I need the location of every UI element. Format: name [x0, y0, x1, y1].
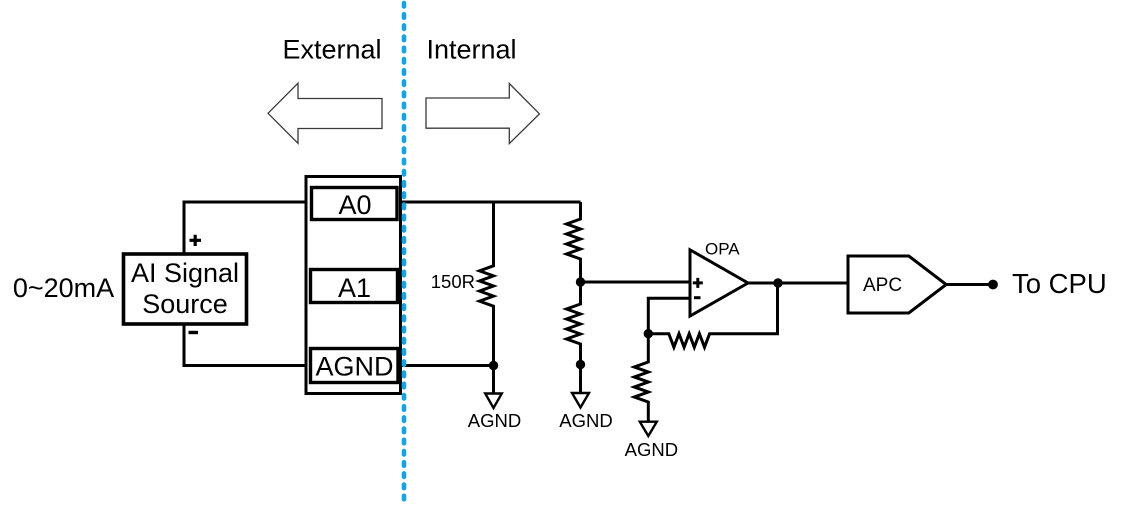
svg-text:AI Signal: AI Signal [131, 258, 239, 288]
wire APC to CPU node [946, 283, 993, 286]
svg-text:APC: APC [863, 275, 902, 296]
resistor divider top [567, 202, 581, 282]
APC block [848, 256, 946, 313]
resistor divider bottom [567, 282, 581, 365]
node feedback junction [644, 329, 653, 338]
arrow external (left) [268, 83, 382, 143]
resistor 150R [480, 202, 494, 366]
op-amp OPA [690, 240, 748, 317]
wire A0 to divider [397, 201, 581, 204]
wire divider bottom to ground 2 [579, 365, 582, 394]
svg-text:0~20mA: 0~20mA [13, 273, 114, 303]
svg-text:OPA: OPA [705, 240, 740, 259]
node To CPU [988, 280, 998, 290]
svg-text:To CPU: To CPU [1012, 268, 1107, 299]
ground AGND 3 [625, 422, 678, 460]
node divider mid [576, 277, 585, 286]
wire AGND terminal to node [397, 364, 494, 367]
terminal AGND [311, 349, 399, 383]
wire op-amp minus input [648, 298, 690, 334]
node divider bottom [576, 360, 585, 369]
resistor R3 to ground [634, 334, 648, 422]
wire node to ground 1 [492, 366, 495, 394]
polarity + [190, 235, 202, 246]
ground AGND 1 [468, 394, 521, 432]
svg-text:AGND: AGND [559, 410, 612, 431]
svg-text:Internal: Internal [426, 35, 516, 65]
wire source minus to AGND terminal [184, 324, 311, 366]
arrow internal (right) [426, 84, 540, 144]
svg-text:AGND: AGND [315, 352, 393, 382]
svg-text:Source: Source [142, 289, 228, 319]
connector block [306, 177, 401, 394]
svg-text:AGND: AGND [468, 410, 521, 431]
resistor feedback [648, 283, 777, 347]
svg-text:A1: A1 [338, 273, 371, 303]
svg-text:A0: A0 [338, 190, 371, 220]
node op-amp output [773, 278, 782, 287]
wire source plus to A0 [184, 202, 311, 254]
wire op-amp output to APC [748, 282, 848, 285]
svg-text:150R: 150R [431, 271, 475, 292]
ground AGND 2 [559, 393, 612, 431]
terminal A0 [312, 188, 398, 221]
svg-text:AGND: AGND [625, 439, 678, 460]
node 150R-AGND junction [489, 361, 498, 370]
polarity - [189, 331, 199, 334]
terminal A1 [311, 270, 398, 304]
svg-text:External: External [282, 35, 381, 65]
separator dashed line External/Internal [402, 3, 407, 504]
wire divider mid to op-amp plus input [581, 281, 691, 284]
source AI Signal Source [124, 254, 247, 324]
